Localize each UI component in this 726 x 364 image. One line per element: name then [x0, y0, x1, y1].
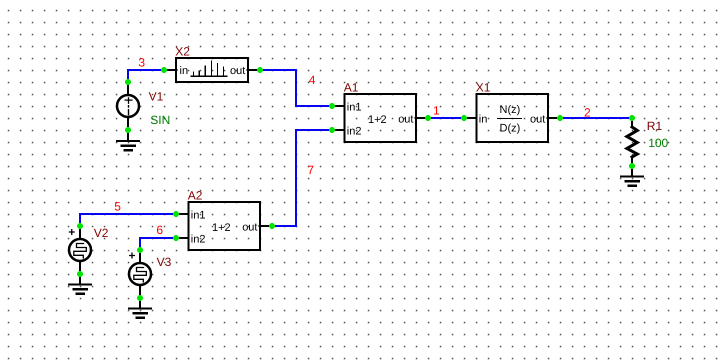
junction dot (140,250): [137, 247, 143, 253]
square source V3: [129, 249, 152, 298]
square source V2: [68, 225, 91, 274]
sampler block X2: [176, 58, 248, 82]
svg-text:in: in: [180, 65, 189, 77]
svg-text:out: out: [530, 113, 545, 125]
pin stub A2.out: [260, 225, 273, 227]
wire node 7: A2 out to A1 in2: [272, 130, 332, 226]
svg-text:A2: A2: [188, 189, 203, 203]
z-transfer block X1: [477, 94, 549, 142]
junction dot (164,70): [161, 67, 167, 73]
ground below R1: [621, 166, 643, 186]
svg-text:3: 3: [138, 55, 145, 69]
svg-text:1: 1: [433, 104, 440, 118]
pin stub X2.in: [164, 69, 177, 71]
svg-text:2: 2: [584, 105, 591, 119]
svg-text:out: out: [398, 113, 413, 125]
junction dot (140,298): [137, 295, 143, 301]
summing block A2: [189, 202, 261, 250]
pin stub A1.in2: [332, 129, 345, 131]
junction dot (260,70): [257, 67, 263, 73]
svg-text:V1: V1: [149, 89, 164, 103]
junction dot (272,226): [269, 223, 275, 229]
svg-text:5: 5: [114, 200, 121, 214]
wire node 1: A1 out to X1 in: [428, 117, 464, 119]
svg-text:X1: X1: [476, 81, 491, 95]
svg-text:1+2: 1+2: [368, 114, 387, 126]
svg-text:6: 6: [156, 223, 163, 237]
junction dot (428,118): [425, 115, 431, 121]
svg-text:1+2: 1+2: [212, 222, 231, 234]
pin stub A2.in1: [176, 213, 189, 215]
svg-text:V3: V3: [157, 255, 172, 269]
svg-text:in: in: [479, 113, 488, 125]
svg-text:SIN: SIN: [150, 113, 170, 127]
sine source V1: [117, 82, 139, 130]
ground below V3: [129, 298, 151, 318]
svg-text:+: +: [68, 225, 75, 239]
svg-text:V2: V2: [94, 226, 109, 240]
svg-text:out: out: [230, 65, 245, 77]
summing block A1: [345, 94, 417, 142]
pin stub A1.out: [416, 117, 429, 119]
junction dot (176,238): [173, 235, 179, 241]
resistor R1: [627, 118, 637, 166]
pin stub X2.out: [248, 69, 261, 71]
ground below V2: [69, 274, 91, 294]
junction dot (332,106): [329, 103, 335, 109]
junction dot (464,118): [461, 115, 467, 121]
wire node 4: X2 out to A1 in1: [260, 70, 332, 106]
junction dot (632,166): [629, 163, 635, 169]
pin stub A2.in2: [176, 237, 189, 239]
pin stub A1.in1: [332, 105, 345, 107]
wire node 3: V1 top to X2 in: [128, 70, 164, 82]
junction dot (80,274): [77, 271, 83, 277]
junction dot (632,118): [629, 115, 635, 121]
svg-text:out: out: [242, 221, 257, 233]
svg-text:in1: in1: [191, 210, 206, 222]
junction dot (332,130): [329, 127, 335, 133]
junction dot (128,82): [125, 79, 131, 85]
wire node 5: V2 top to A2 in1: [80, 214, 176, 226]
svg-text:N(z): N(z): [500, 104, 521, 116]
wire node 6: V3 top to A2 in2: [140, 238, 176, 250]
pin stub X1.in: [464, 117, 477, 119]
svg-text:in2: in2: [191, 234, 206, 246]
ground below V1: [117, 130, 139, 150]
pin stub X1.out: [548, 117, 561, 119]
wire node 2: X1 out to R1: [560, 117, 632, 119]
svg-text:R1: R1: [647, 119, 663, 133]
svg-text:100: 100: [648, 136, 668, 150]
svg-text:in2: in2: [347, 126, 362, 138]
svg-text:4: 4: [309, 73, 316, 87]
junction dot (560,118): [557, 115, 563, 121]
svg-text:in1: in1: [347, 102, 362, 114]
svg-text:X2: X2: [175, 44, 190, 58]
svg-text:7: 7: [307, 163, 314, 177]
junction dot (176,214): [173, 211, 179, 217]
junction dot (128,130): [125, 127, 131, 133]
junction dot (80,226): [77, 223, 83, 229]
svg-text:A1: A1: [344, 81, 359, 95]
svg-text:+: +: [129, 249, 136, 263]
svg-text:D(z): D(z): [500, 123, 521, 135]
